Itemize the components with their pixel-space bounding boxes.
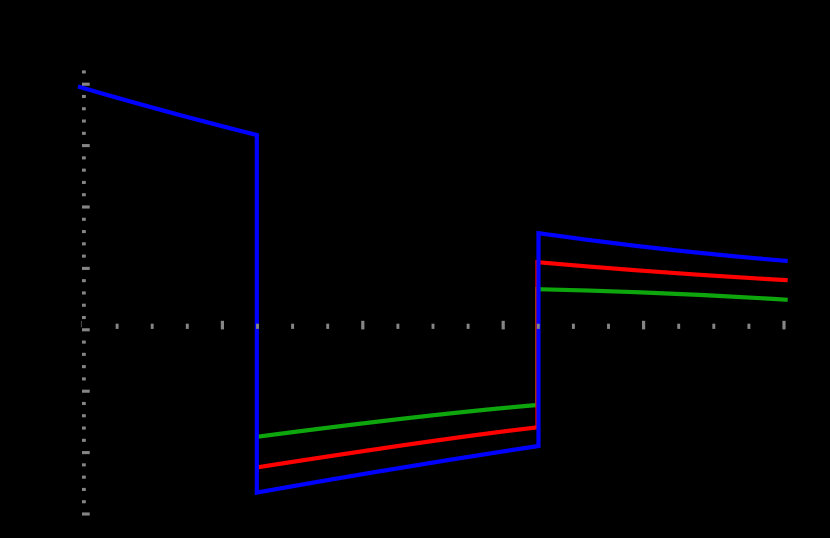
x-axis major ticks xyxy=(221,321,786,330)
blue curve xyxy=(78,87,788,493)
faint x-axis tick at origin xyxy=(81,321,82,328)
green curve xyxy=(257,289,788,437)
red curve xyxy=(257,262,788,467)
y-axis major ticks xyxy=(82,83,90,516)
y-axis dotted line (minor ticks) xyxy=(82,70,86,503)
x-axis dotted line (minor ticks) xyxy=(116,324,751,329)
